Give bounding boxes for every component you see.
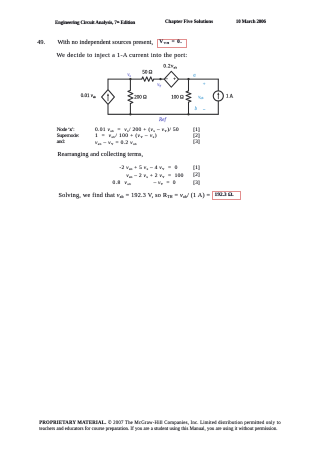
wire 100ohm branch upper — [188, 79, 190, 91]
svg-text:+: + — [203, 83, 206, 88]
footer line 1 — [39, 422, 281, 427]
svg-text:0.01 vab: 0.01 vab — [81, 94, 97, 99]
wire 100ohm branch lower — [188, 102, 190, 114]
svg-text:a: a — [193, 73, 196, 78]
arrowhead of source I1 — [217, 92, 219, 95]
resistor 200ohm zigzag — [128, 90, 133, 103]
equation row: supernode — [57, 134, 80, 140]
junction bottom right — [187, 113, 189, 115]
junction node vx — [129, 78, 131, 80]
arrowhead of source U1 — [107, 93, 109, 96]
svg-text:200 Ω: 200 Ω — [134, 95, 147, 100]
answer box 1 — [157, 39, 187, 48]
header middle: chapter — [165, 21, 213, 26]
collected equation 3 — [113, 181, 132, 187]
svg-text:vab: vab — [198, 95, 204, 100]
svg-text:Ref: Ref — [158, 116, 167, 123]
resistor 100ohm zigzag — [186, 91, 191, 102]
arrow of source U1 — [107, 95, 109, 100]
dependent source U1 diamond 0.01vab — [102, 90, 115, 105]
svg-text:−: − — [165, 78, 168, 83]
wire top rail left segment — [108, 78, 142, 80]
svg-text:b: b — [195, 107, 198, 112]
header right: date — [236, 21, 266, 26]
second sentence — [57, 53, 188, 59]
junction node vy — [159, 78, 161, 80]
dependent source U2 diamond 0.2vab — [164, 71, 178, 87]
svg-text:0.2vab: 0.2vab — [163, 64, 177, 69]
collected equation 1 — [119, 166, 177, 172]
collected equation 2 — [126, 174, 183, 180]
wire right branch upper — [217, 79, 219, 91]
svg-text:vY: vY — [157, 83, 161, 88]
first sentence — [58, 40, 154, 46]
wire left branch lower — [107, 104, 109, 114]
svg-text:+: + — [173, 78, 176, 83]
solving sentence — [59, 193, 211, 199]
footer line 2 — [39, 428, 277, 433]
equation row: node x — [57, 128, 75, 134]
header left: book title — [55, 21, 135, 27]
svg-text:1 A: 1 A — [226, 95, 233, 100]
rearranging sentence — [58, 152, 144, 158]
wire left branch upper — [107, 79, 109, 90]
arrow of source I1 — [217, 94, 219, 99]
svg-text:50 Ω: 50 Ω — [142, 70, 152, 75]
current source I1 circle 1A — [213, 91, 223, 101]
svg-text:−: − — [203, 108, 206, 113]
wire right branch lower — [217, 101, 219, 114]
wire 200ohm branch upper — [129, 79, 131, 90]
equation row: and — [57, 140, 65, 146]
wire top rail mid segment — [154, 78, 164, 80]
wire bottom rail — [108, 113, 218, 115]
problem number — [37, 40, 45, 46]
junction node a — [187, 78, 189, 80]
wire 200ohm branch lower — [129, 104, 131, 115]
wire top rail right segment — [179, 78, 219, 80]
resistor 50ohm zigzag — [142, 77, 154, 81]
junction bottom left — [129, 113, 131, 115]
svg-text:100 Ω: 100 Ω — [171, 95, 184, 100]
svg-text:vx: vx — [127, 73, 131, 78]
answer box 2 — [212, 191, 242, 201]
